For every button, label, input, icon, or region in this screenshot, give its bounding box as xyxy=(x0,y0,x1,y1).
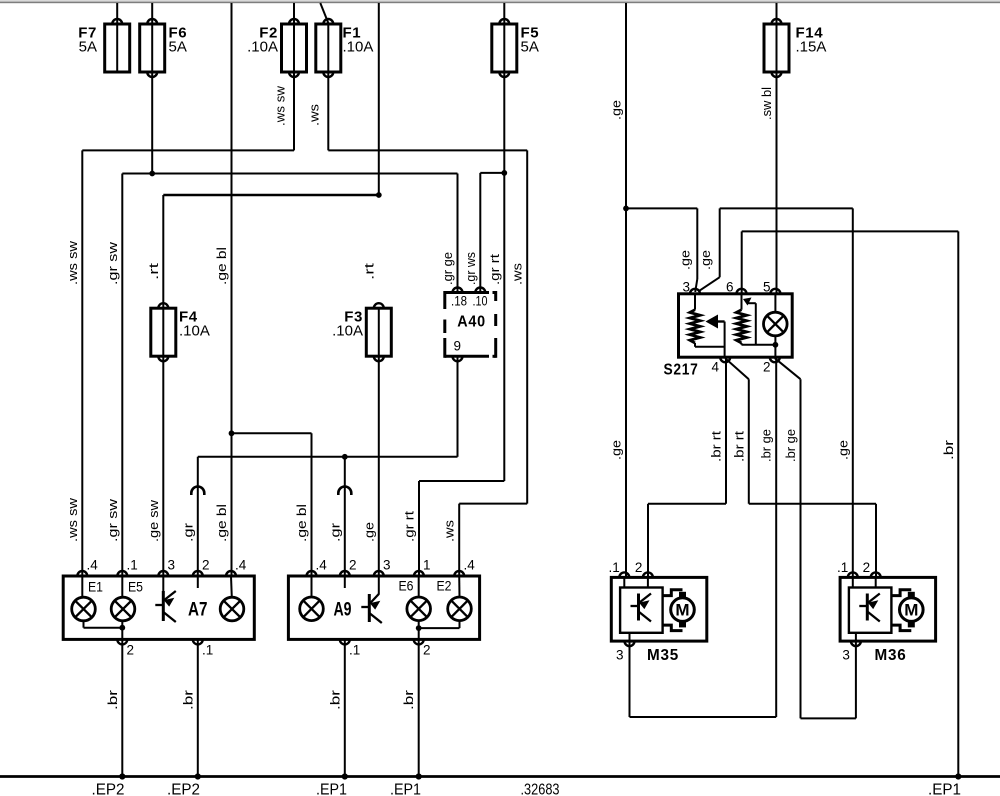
wire E6 bottom to pin2 xyxy=(418,621,420,640)
svg-text:A40: A40 xyxy=(457,314,486,331)
top border bar xyxy=(0,0,1000,2)
wire gr rt down to A9 pin1 xyxy=(418,481,420,576)
svg-text:E1: E1 xyxy=(88,580,103,595)
wire M36 pin1 internal xyxy=(852,577,854,587)
svg-text:.1: .1 xyxy=(202,643,213,658)
wire ge down to M35 pin1 xyxy=(625,208,627,577)
wire net gr-ws link xyxy=(480,172,504,174)
svg-text:3: 3 xyxy=(616,648,624,663)
transistor M36 driver xyxy=(859,594,880,622)
junction ge bl node xyxy=(229,430,235,436)
svg-text:.4: .4 xyxy=(464,558,476,573)
wire M36 pin3 bus xyxy=(801,717,856,719)
svg-text:.br rt: .br rt xyxy=(709,431,724,462)
svg-text:E2: E2 xyxy=(437,579,452,594)
pin M35 pin 3 xyxy=(625,641,635,646)
svg-text:3: 3 xyxy=(842,648,850,663)
svg-text:.br: .br xyxy=(105,689,120,710)
svg-text:.ws: .ws xyxy=(510,262,525,285)
lamp lamp E5 xyxy=(111,597,135,621)
wire ws sw down to A7 pin4 xyxy=(81,150,83,576)
wire S217 tap loop vertical xyxy=(755,303,757,345)
wire S217 coil1 bottom link xyxy=(694,343,696,347)
wire S217 pin6 internal xyxy=(741,294,743,310)
svg-text:.br rt: .br rt xyxy=(731,431,746,462)
wire ge branch down xyxy=(719,208,721,277)
wire ge sw F4 to A7 pin3 xyxy=(162,356,164,576)
svg-text:6: 6 xyxy=(726,280,734,295)
svg-text:.1: .1 xyxy=(837,560,848,575)
svg-text:2: 2 xyxy=(863,560,871,575)
svg-text:.br ge: .br ge xyxy=(759,429,774,462)
S217 wiper arrow xyxy=(706,315,719,329)
resistor coil S217 left resistor xyxy=(690,310,700,343)
svg-text:.br: .br xyxy=(180,689,195,710)
fuse F7 xyxy=(105,24,130,72)
wire A9 pin2 to ground xyxy=(418,639,420,776)
svg-text:.rt: .rt xyxy=(146,262,161,280)
svg-text:S217: S217 xyxy=(664,362,699,379)
wire A9 pin4b to E2 xyxy=(458,576,460,597)
wire E2 bottom drop xyxy=(459,621,461,629)
svg-text:2: 2 xyxy=(763,360,771,375)
wire F14 feed xyxy=(776,3,778,24)
switch S217 box xyxy=(679,294,793,357)
pin M36 pin 3 xyxy=(851,641,861,646)
junction ge node xyxy=(623,206,629,212)
svg-text:.ge: .ge xyxy=(609,440,624,460)
svg-text:5: 5 xyxy=(763,280,771,295)
wire gr horizontal from A40 pin9 xyxy=(198,456,458,458)
svg-text:5A: 5A xyxy=(79,39,97,56)
lamp lamp E1 xyxy=(72,597,96,621)
wire br rt 2 jog to M36 pin2 xyxy=(749,503,876,505)
motor unit M35 box xyxy=(611,577,707,641)
svg-text:.15A: .15A xyxy=(796,39,827,56)
svg-text:2: 2 xyxy=(423,643,431,658)
svg-text:.ws: .ws xyxy=(442,519,457,542)
svg-text:E5: E5 xyxy=(128,580,143,595)
wire F1 out (ws) down xyxy=(327,72,329,150)
pin A7 pin 1 bottom xyxy=(193,639,203,644)
pin A7 pin 1 xyxy=(117,571,127,576)
wire E1-E5 link xyxy=(84,627,123,629)
svg-text:2: 2 xyxy=(349,558,357,573)
pin A7 pin 4a xyxy=(77,571,87,576)
wire ws down to A9 pin4b xyxy=(458,504,460,576)
pin A9 pin 2 xyxy=(340,571,350,576)
transistor M35 driver xyxy=(631,594,652,622)
wire A7 pin1 to ground xyxy=(197,639,199,776)
svg-text:M: M xyxy=(904,601,918,620)
svg-text:.18: .18 xyxy=(451,294,467,309)
wire gr rt down from F5 node xyxy=(503,173,505,481)
svg-text:.br: .br xyxy=(401,689,416,710)
svg-text:.EP1: .EP1 xyxy=(390,782,421,796)
wire M36 pin3 drop xyxy=(855,641,857,718)
wire br rt 1 jog to M35 pin2 xyxy=(648,503,726,505)
wire A40 pin9 down xyxy=(457,356,459,457)
svg-text:.EP2: .EP2 xyxy=(92,782,125,796)
junction ground node EP2 b xyxy=(195,773,201,779)
fuse F4 xyxy=(151,308,176,356)
svg-text:.1: .1 xyxy=(349,643,360,658)
wire A9 pin4a to lamp xyxy=(311,576,313,597)
fuse F1 xyxy=(316,24,341,72)
wire gr sw down to A7 pin1 xyxy=(121,174,123,577)
pin A40 pin 9 xyxy=(453,356,463,361)
junction ground node EP1 a xyxy=(342,773,348,779)
svg-text:M35: M35 xyxy=(647,647,679,664)
svg-text:.1: .1 xyxy=(609,560,620,575)
pin M35 pin 2 xyxy=(643,572,653,577)
wire rt main from border to F3 xyxy=(378,3,380,195)
junction E6/E2 node xyxy=(416,625,422,631)
M35 electronics box xyxy=(620,588,663,633)
ground bus EP xyxy=(0,775,1000,778)
svg-text:.10A: .10A xyxy=(343,39,374,56)
svg-text:.1: .1 xyxy=(127,558,138,573)
junction ground node EP1 right xyxy=(955,773,961,779)
lighting unit A7 box xyxy=(63,576,254,639)
wire A7 pin4a to E1 xyxy=(81,576,83,597)
wire S217 pin4 diagonal xyxy=(725,358,749,379)
wire S217 pin2 diagonal xyxy=(775,358,801,379)
pin A7 pin 3 xyxy=(158,571,168,576)
wire A7 pin2 stub xyxy=(197,576,199,588)
pin A7 pin 4b xyxy=(226,571,236,576)
svg-text:.gr sw: .gr sw xyxy=(105,241,120,285)
pin S217 pin 3 xyxy=(690,289,700,294)
pin A9 pin 3 xyxy=(374,571,384,576)
pin A9 pin 1 xyxy=(414,571,424,576)
wire br rt 2 down xyxy=(748,379,750,504)
svg-text:.ge: .ge xyxy=(361,522,376,542)
svg-text:.10A: .10A xyxy=(179,323,210,340)
svg-text:.4: .4 xyxy=(87,558,99,573)
wire F14 out (sw bl) down xyxy=(776,72,778,294)
pin S217 pin 4 xyxy=(720,357,730,362)
pin A7 pin 2 bottom xyxy=(117,639,127,644)
wire M36 pin2 drop xyxy=(875,504,877,578)
fuse F3 xyxy=(366,308,391,356)
svg-text:.br: .br xyxy=(941,439,956,460)
junction F6/gr-sw node xyxy=(149,171,155,177)
svg-text:.rt: .rt xyxy=(361,262,376,280)
wire A9 pin1 to ground xyxy=(344,639,346,776)
wire F1 feed (slanted) xyxy=(320,3,328,23)
svg-text:2: 2 xyxy=(127,643,135,658)
pin S217 pin 2 xyxy=(770,357,780,362)
pin A9 pin 4b xyxy=(454,571,464,576)
svg-text:.gr rt: .gr rt xyxy=(402,511,417,542)
motor symbol M35 xyxy=(663,590,695,631)
svg-text:.gr ge: .gr ge xyxy=(440,252,455,285)
wire br link S217 pin6 xyxy=(742,230,959,232)
wire ge link pin3 to M36 xyxy=(720,207,853,209)
svg-text:2: 2 xyxy=(202,558,210,573)
wire ge bl down to A9 pin4a xyxy=(311,433,313,576)
wire S217 coil2 bottom horizontal xyxy=(742,344,776,346)
svg-text:3: 3 xyxy=(168,558,176,573)
svg-text:.ge: .ge xyxy=(609,100,624,120)
wire br rt 1 from S217 pin4 xyxy=(725,357,727,504)
control unit A40 box xyxy=(445,291,496,358)
fuse F6 xyxy=(140,24,165,72)
wire E1 bottom drop xyxy=(83,621,85,628)
svg-text:.ge: .ge xyxy=(698,250,713,270)
svg-text:A9: A9 xyxy=(334,600,352,621)
pin A9 pin 4a xyxy=(307,571,317,576)
wire ge diagonal to pin3 xyxy=(695,279,697,292)
wire S217 tap loop horizontal xyxy=(747,302,756,304)
svg-text:.EP2: .EP2 xyxy=(167,782,200,796)
lamp S217 indicator lamp xyxy=(764,312,788,336)
wire net ws horizontal xyxy=(328,149,527,151)
svg-text:.ws sw: .ws sw xyxy=(65,240,80,285)
wire E6-E2 link xyxy=(419,627,460,629)
wire rt horizontal F4-F3 xyxy=(163,194,378,197)
svg-text:9: 9 xyxy=(454,339,462,354)
transistor A7 dimmer xyxy=(155,591,176,622)
wire ge down to M36 pin1 xyxy=(852,208,854,577)
lamp lamp E2 xyxy=(448,597,472,621)
pin M36 pin 1 xyxy=(848,572,858,577)
wire ge F3 to A9 pin3 xyxy=(378,356,380,576)
wire gr ge down to A40 pin18 xyxy=(457,174,459,293)
junction F5 node xyxy=(501,170,507,176)
wire net ws-sw horizontal xyxy=(82,149,294,151)
svg-text:2: 2 xyxy=(635,560,643,575)
lighting unit A9 box xyxy=(288,576,479,639)
transistor A9 dimmer xyxy=(361,594,382,623)
lamp lamp A7 internal xyxy=(220,597,244,621)
wire M35 pin3 internal xyxy=(629,633,631,641)
svg-text:.sw bl: .sw bl xyxy=(759,87,774,120)
svg-text:A7: A7 xyxy=(188,600,208,621)
wire F5 out down xyxy=(503,72,505,173)
svg-text:M36: M36 xyxy=(875,647,907,664)
wire A7 pin1 to E5 xyxy=(121,576,123,597)
lamp lamp E6 xyxy=(407,597,431,621)
wire M35 pin2 drop xyxy=(647,504,649,577)
wire A7 pin4b to lamp xyxy=(230,576,233,597)
wire F5 feed xyxy=(503,3,505,24)
wire ge link to S217 pin3 xyxy=(626,207,697,209)
motor unit M36 box xyxy=(840,577,936,641)
wire F2 out (ws sw) down xyxy=(293,72,295,150)
svg-text:5A: 5A xyxy=(521,39,539,56)
junction rt node at F3 feed xyxy=(376,192,382,198)
pin M35 pin 1 xyxy=(619,572,629,577)
svg-text:5A: 5A xyxy=(169,39,187,56)
svg-text:.EP1: .EP1 xyxy=(316,782,347,796)
wire A9 pin1 to E6 xyxy=(418,576,420,597)
svg-text:.10A: .10A xyxy=(247,39,278,56)
wire M35 pin1 internal xyxy=(623,577,625,587)
wire F7 feed xyxy=(116,3,118,24)
svg-text:.32683: .32683 xyxy=(521,782,560,796)
junction gr node xyxy=(342,454,348,460)
svg-text:M: M xyxy=(675,601,689,620)
wire M35 pin3 drop xyxy=(629,642,631,718)
svg-text:.ws: .ws xyxy=(307,103,322,126)
svg-text:.10: .10 xyxy=(473,294,488,309)
wire gr rt jog xyxy=(419,480,504,482)
svg-text:.ge bl: .ge bl xyxy=(294,504,309,542)
wire ge bl branch horizontal xyxy=(232,432,312,434)
fuse F2 xyxy=(282,24,307,72)
wire net gr horizontal xyxy=(122,173,457,175)
svg-text:.4: .4 xyxy=(235,558,247,573)
wire M36 pin3 internal xyxy=(855,633,857,641)
wire gr down to A7 pin2 xyxy=(197,457,199,576)
svg-text:.ge: .ge xyxy=(678,250,693,270)
wire ge bl main from border xyxy=(231,3,233,433)
svg-text:1: 1 xyxy=(423,558,431,573)
wire A7 pin3 to transistor xyxy=(162,576,164,591)
svg-text:.gr: .gr xyxy=(180,522,195,542)
wire S217 coil2 bottom link xyxy=(741,343,743,345)
wire M35 pin3 bus xyxy=(630,716,777,718)
resistor coil S217 right resistor xyxy=(736,310,746,343)
wire F6 feed xyxy=(151,3,153,24)
wire br down from S217 pin6 link xyxy=(957,231,959,776)
svg-text:.gr rt: .gr rt xyxy=(487,254,502,285)
wire F2 feed xyxy=(293,3,295,24)
wire A7 pin2 to ground xyxy=(121,639,123,776)
motor symbol M36 xyxy=(892,590,924,631)
svg-text:.4: .4 xyxy=(316,558,328,573)
S217 tap arrowhead xyxy=(743,298,752,306)
svg-text:3: 3 xyxy=(383,558,391,573)
wire br ge 2 down xyxy=(800,379,802,718)
wire br ge 1 from S217 pin2 xyxy=(775,357,777,717)
svg-text:.ws sw: .ws sw xyxy=(65,497,80,542)
M36 electronics box xyxy=(849,588,892,633)
wire M35 pin2 internal xyxy=(647,577,649,587)
wire A9 pin3 stub xyxy=(378,576,380,595)
wire sw bl crossing to S217 pin5 xyxy=(776,231,778,293)
svg-text:.10A: .10A xyxy=(332,323,363,340)
wire ws down from H1 xyxy=(526,150,528,503)
svg-text:.ws sw: .ws sw xyxy=(273,85,288,126)
wire E5 bottom to pin2 xyxy=(121,621,123,640)
wire gr down to A9 pin2 xyxy=(344,457,346,576)
svg-text:.br: .br xyxy=(327,689,342,710)
pin S217 pin 6 xyxy=(737,289,747,294)
pin A9 pin 1 bottom xyxy=(340,639,350,644)
junction ground node EP2 a xyxy=(119,773,125,779)
wire ge down to S217 pin3 xyxy=(696,208,698,279)
junction ground node EP1 b xyxy=(416,773,422,779)
wire F6 out (gr) down xyxy=(151,72,153,174)
svg-text:.EP1: .EP1 xyxy=(928,782,961,796)
svg-text:E6: E6 xyxy=(399,579,414,594)
wire gr ws down to A40 pin10 xyxy=(479,173,481,293)
svg-text:.gr ws: .gr ws xyxy=(463,252,478,285)
wire ge diagonal branch to pin3 xyxy=(699,277,720,291)
wire S217 lamp bottom to pin2 xyxy=(774,336,776,357)
wire M36 pin2 internal xyxy=(875,577,877,587)
junction E1/E5 node xyxy=(119,625,125,631)
svg-text:.ge: .ge xyxy=(835,440,850,460)
pin M36 pin 2 xyxy=(871,572,881,577)
junction S217 lamp/pin2 node xyxy=(773,342,779,348)
wire ge bl down to A7 pin4b xyxy=(231,433,233,576)
wire ge main from border xyxy=(625,3,627,208)
pin A7 pin 2 xyxy=(193,571,203,576)
svg-text:3: 3 xyxy=(682,280,690,295)
wire S217 pin5 internal xyxy=(774,294,776,312)
lamp lamp A9 internal xyxy=(300,597,324,621)
svg-text:.gr sw: .gr sw xyxy=(105,498,120,542)
wire S217 wiper stem to pin4 xyxy=(724,322,726,358)
svg-text:.ge bl: .ge bl xyxy=(214,247,229,285)
wire A9 pin2 stub xyxy=(344,576,346,588)
svg-text:4: 4 xyxy=(711,360,719,375)
connector arrow on gr wire A9 xyxy=(338,487,351,496)
fuse F14 xyxy=(764,24,789,72)
wire S217 coil1 bottom to wiper stem xyxy=(695,346,725,348)
pin A40 pin 18 xyxy=(453,288,463,293)
wire S217 pin3 internal xyxy=(694,294,696,310)
pin A40 pin 10 xyxy=(475,288,485,293)
svg-text:.br ge: .br ge xyxy=(783,429,798,462)
svg-text:.ge sw: .ge sw xyxy=(146,499,161,542)
fuse F5 xyxy=(492,24,517,72)
wire ws jog xyxy=(459,503,527,505)
wire S217 pin6 drop xyxy=(741,231,743,293)
svg-text:.gr: .gr xyxy=(327,522,342,542)
pin S217 pin 5 xyxy=(770,289,780,294)
connector arrow on gr wire A7 xyxy=(191,487,204,496)
svg-text:.ge bl: .ge bl xyxy=(214,504,229,542)
wire rt down to F4 xyxy=(162,195,164,308)
pin A9 pin 2 bottom xyxy=(414,639,424,644)
